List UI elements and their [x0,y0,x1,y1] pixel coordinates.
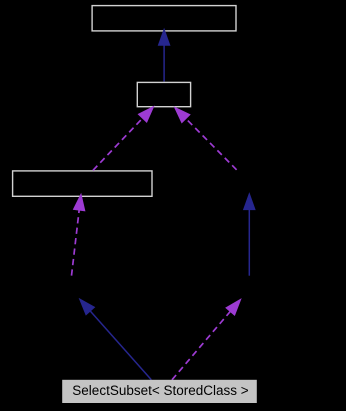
svg-text:SelectSubset< StoredClass >: SelectSubset< StoredClass > [72,383,248,398]
edge: solid inheritance arrow, SelectSubset to left hidden node [80,299,152,380]
edge: solid inheritance arrow, right lower hidden node to right upper hidden node [244,194,255,276]
node: left class box (text not visible) [13,171,152,196]
edge: dashed usage arrow, right hidden node to middle box bottom-right [175,107,237,170]
node: top base class box (text not visible) [92,6,236,31]
node: SelectSubset< StoredClass > (current class, grey) [62,380,257,403]
edge: solid inheritance arrow, middle box to top box [158,29,169,81]
edge: dashed usage arrow, left box top to middle box bottom-left [93,107,154,171]
node: middle base class box (text not visible) [137,82,190,106]
edge: dashed usage arrow, SelectSubset to right lower hidden node [172,299,241,380]
edge: dashed usage arrow, left hidden node to left box bottom [72,194,85,275]
